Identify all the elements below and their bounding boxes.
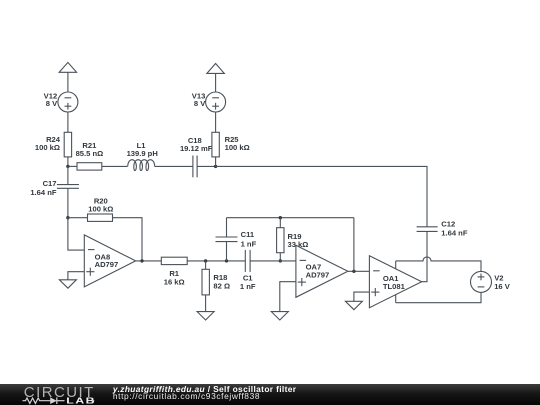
wire C12 to OA1 output (422, 231, 427, 281)
op-amp OA8 (84, 235, 135, 287)
svg-text:C11: C11 (241, 230, 255, 239)
op-amp OA7 (296, 245, 348, 297)
label R21 (76, 141, 104, 158)
capacitor C18 (193, 156, 197, 178)
wire OA1 noninverting to ground (354, 292, 370, 301)
resistor R24 (64, 132, 71, 157)
svg-text:16 kΩ: 16 kΩ (164, 278, 185, 287)
svg-text:82 Ω: 82 Ω (213, 282, 230, 291)
label V12 (44, 91, 58, 108)
label L1 (127, 141, 158, 158)
wire OA8 noninverting to ground (68, 272, 84, 280)
svg-text:16 V: 16 V (494, 282, 511, 291)
wire OA1 V- stub (395, 295, 397, 303)
node junction R18 (204, 259, 207, 262)
svg-text:1.64 nF: 1.64 nF (30, 188, 57, 197)
svg-text:85.5 nΩ: 85.5 nΩ (76, 149, 104, 158)
wire junction to R18 (205, 261, 207, 269)
label R19 (288, 232, 309, 249)
node OA7 output junction (352, 270, 355, 273)
wire V+ rail with hop (396, 257, 481, 272)
svg-text:1 nF: 1 nF (241, 239, 257, 248)
svg-text:139.9 pH: 139.9 pH (127, 149, 158, 158)
node junction R19 bottom (279, 259, 282, 262)
svg-text:1 nF: 1 nF (240, 282, 256, 291)
label OA1 (383, 274, 406, 291)
wire R19 top (279, 218, 281, 228)
svg-text:8 V: 8 V (46, 99, 58, 108)
label C1 (240, 274, 256, 292)
label R1 (164, 269, 185, 286)
wire L1 to C18 (155, 165, 193, 167)
voltage source V12 (58, 92, 78, 112)
svg-text:AD797: AD797 (95, 260, 119, 269)
wire V- rail (396, 292, 481, 302)
svg-text:100 kΩ: 100 kΩ (35, 143, 60, 152)
wire OA8 output (136, 260, 162, 262)
wire junction to R20 (68, 217, 88, 219)
node junction C17/R20 (66, 216, 69, 219)
resistor R18 (202, 269, 209, 295)
capacitor C11 (216, 218, 238, 261)
wire V12 to R24 (67, 112, 69, 132)
label V13 (192, 91, 206, 108)
inductor L1 (128, 160, 155, 171)
label OA7 (306, 263, 330, 280)
svg-text:100 kΩ: 100 kΩ (88, 205, 113, 214)
wire R25 to rail (215, 157, 217, 167)
resistor R21 (77, 163, 102, 170)
node OA8 output junction (140, 259, 143, 262)
voltage source V2 (471, 271, 492, 292)
label R20 (88, 196, 113, 213)
wire R19 bottom (279, 253, 281, 261)
wire R1 to C1 (187, 260, 245, 262)
svg-text:100 kΩ: 100 kΩ (225, 143, 250, 152)
label C11 (241, 230, 257, 248)
svg-text:C12: C12 (441, 220, 455, 229)
svg-text:19.12 mF: 19.12 mF (180, 144, 213, 153)
wire R24 to rail (67, 157, 69, 167)
wire C1 to OA7 inverting input (250, 260, 296, 262)
voltage source V13 (206, 92, 226, 112)
node junction left rail (66, 165, 69, 168)
ground below R18 (197, 312, 214, 320)
svg-text:1.64 nF: 1.64 nF (441, 228, 468, 237)
label OA8 (95, 252, 119, 269)
node junction R19 top (279, 216, 282, 219)
wire C18 to junction B (197, 165, 216, 167)
power flag V12 top (59, 62, 76, 92)
ground OA1 (345, 301, 362, 309)
resistor R19 (277, 228, 284, 253)
circuitlab logo (0, 384, 110, 405)
label C12 (441, 220, 468, 238)
capacitor C17 (57, 166, 79, 217)
svg-text:TL081: TL081 (383, 282, 406, 291)
svg-text:LAB: LAB (66, 397, 96, 405)
wire to OA8 inverting input (68, 218, 84, 250)
op-amp OA1 (369, 256, 421, 308)
footer title text (113, 384, 297, 394)
resistor R25 (212, 132, 219, 157)
node junction below R25 (214, 165, 217, 168)
node junction C11 (225, 259, 228, 262)
power flag V13 top (207, 64, 224, 93)
resistor R20 (88, 214, 113, 221)
wire junction to R21 (68, 165, 77, 167)
label R25 (225, 135, 250, 152)
wire OA1 V+ stub (395, 261, 397, 269)
label V2 (494, 274, 511, 291)
wire R20 to OA8 output (113, 218, 143, 261)
wire top rail right (216, 166, 427, 226)
footer bar (0, 384, 540, 405)
resistor R1 (161, 257, 187, 264)
ground OA8 (59, 280, 76, 288)
wire feedback down to OA7 output (353, 218, 355, 272)
footer url text (113, 391, 260, 401)
wire OA7 noninverting to ground (280, 282, 296, 312)
label R18 (213, 273, 230, 291)
svg-text:AD797: AD797 (306, 270, 330, 279)
wire R18 to ground (205, 295, 207, 312)
label C17 (30, 179, 57, 197)
ground OA7 (271, 312, 288, 320)
svg-text:C17: C17 (43, 179, 57, 188)
svg-text:8 V: 8 V (194, 99, 206, 108)
wire V13 to R25 (215, 112, 217, 132)
capacitor C12 (417, 227, 438, 232)
label R24 (35, 135, 61, 152)
wire OA7 output (348, 270, 370, 272)
wire R21 to L1 (102, 165, 128, 167)
wire feedback rail (227, 217, 354, 219)
label C18 (180, 136, 213, 153)
capacitor C1 (245, 250, 250, 272)
